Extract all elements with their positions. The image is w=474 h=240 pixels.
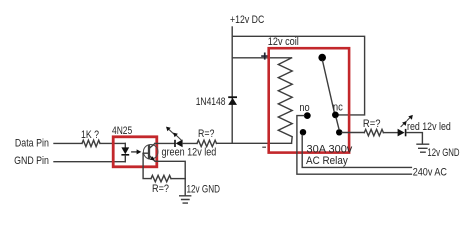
node - (coil negative) [263,146,266,148]
wire nc contact to nc terminal [336,118,339,129]
transistor Q1 opto output [143,145,158,160]
svg-text:30A 300v: 30A 300v [307,144,354,156]
svg-text:R=?: R=? [198,128,214,140]
resistor R base [151,175,171,181]
svg-text:green 12v led: green 12v led [162,147,217,159]
LED D red indicator [398,129,407,137]
resistor green value label [198,128,214,140]
wire green led to resistor [183,142,197,144]
wire resistor to red led [383,132,397,134]
wire Data Pin to resistor [54,142,82,144]
svg-text:+12v DC: +12v DC [230,14,265,26]
relay name label [306,155,348,167]
wire base to bar [143,152,148,154]
LED green label [162,147,217,159]
no label [299,102,309,114]
wire opto LED cathode down [124,156,126,162]
svg-text:GND Pin: GND Pin [14,155,49,167]
node + (coil positive) [261,53,268,60]
ground right label [427,147,459,159]
wire no terminal to 240v AC upper line [302,135,411,167]
wire collector to green led [155,142,175,144]
diode 1N4148 value label [196,96,226,108]
svg-text:AC Relay: AC Relay [306,155,348,167]
relay rating label [307,144,354,156]
wire +12v branch to coil plus [232,57,291,59]
svg-text:12v coil: 12v coil [268,36,299,48]
svg-text:red 12v led: red 12v led [407,121,451,133]
node no contact [304,112,311,119]
wire +12v to nc contact (top run) [232,36,364,115]
node Data Pin label [15,138,49,150]
svg-text:nc: nc [333,102,344,114]
LED green light arrows [169,129,181,140]
svg-text:1K ?: 1K ? [81,129,99,141]
svg-text:R=?: R=? [363,118,381,130]
node nc contact [332,112,339,119]
wire base resistor to ground rail [171,178,185,180]
resistor base value label [152,183,169,195]
resistor red value label [363,118,381,130]
node +12v DC label [230,14,265,26]
nc label [333,102,344,114]
relay K1 red box [269,48,349,152]
opto light arrow [132,151,138,153]
svg-text:1N4148: 1N4148 [196,96,226,108]
svg-text:R=?: R=? [152,183,169,195]
wire no contact to 240v AC lower line [297,116,412,175]
svg-text:no: no [299,102,309,114]
LED red light arrows [401,117,410,126]
wire +12v vertical rail [231,27,233,143]
node GND Pin label [14,155,49,167]
node relay common pivot [318,54,326,62]
diode opto internal LED [124,143,126,147]
resistor R red led [364,129,383,135]
relay coil label [268,36,299,48]
wire resistor to +12v rail and on to coil minus [217,142,292,144]
inductor relay coil [278,58,292,143]
ground 12v GND right [417,144,429,152]
optocoupler U1 4N25 box [113,137,157,167]
node 240v AC label [413,166,448,178]
resistor 1K value label [81,129,99,141]
LED red label [407,121,451,133]
node no terminal [300,129,306,135]
svg-text:12v GND: 12v GND [187,183,221,195]
wire red led to ground [406,133,422,144]
wire relay lever arm [323,61,335,112]
svg-text:240v AC: 240v AC [413,166,448,178]
ground 12v GND left [180,196,191,203]
wire GND Pin to optocoupler LED cathode [54,161,125,163]
wire resistor to optocoupler LED anode [100,142,125,144]
wire base down to resistor [143,153,151,178]
resistor R 1K [82,140,100,146]
diode 1N4148 [228,96,237,105]
ground left label [187,183,221,195]
svg-text:4N25: 4N25 [112,125,132,137]
LED D green indicator [174,140,182,148]
optocoupler 4N25 label [112,125,132,137]
node nc terminal [336,129,342,135]
svg-text:12v GND: 12v GND [427,147,459,159]
wire emitter to ground rail [154,161,185,196]
svg-text:Data Pin: Data Pin [15,138,49,150]
resistor R green led [197,140,217,146]
wire nc terminal to red led resistor [342,132,364,134]
